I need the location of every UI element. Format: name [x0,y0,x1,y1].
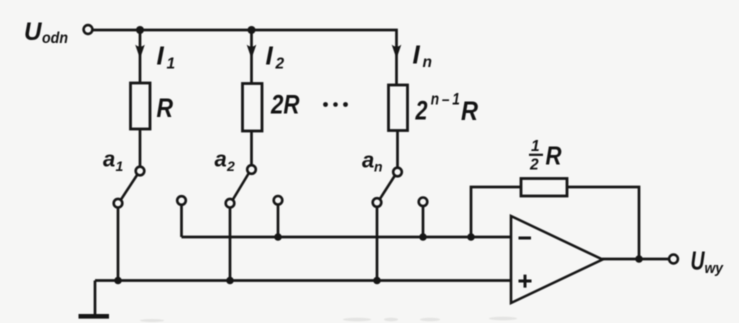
svg-text:a: a [362,148,374,173]
resistor R3 value 2^(n-1)R [389,85,408,131]
terminal U_odn (open circle) [84,25,93,34]
wire branch 3 vertical (resistor 2^(n-1)R to switch an pole) [396,131,399,168]
node: junction dot ground bus / a2 [226,277,234,285]
wire branch 2 vertical (top bus to resistor 2R) [250,30,253,84]
svg-text:R: R [461,96,478,126]
svg-text:n: n [374,159,383,175]
svg-text:1: 1 [167,56,176,73]
wire an right contact down to summing bus [422,206,425,237]
switch a2: blade [233,173,249,200]
switch a1: pole contact circle [136,167,145,176]
switch an: right (summing-side) contact circle [419,198,428,207]
switch a1: blade [121,175,137,200]
svg-text:1: 1 [531,138,540,155]
resistor R1 value R [131,83,151,129]
faint scan bleed-through smudges (decorative) [140,317,517,322]
op-amp minus sign [519,237,532,240]
node: junction dot ground bus / an [373,277,381,285]
wire a1 right contact down then right: start of summing bus [180,205,183,237]
node: junction dot top bus / branch 1 [136,26,144,34]
svg-text:2: 2 [529,157,539,174]
switch an: pole contact circle [393,168,402,177]
ground symbol [79,314,110,319]
node: junction dot summing bus / a2 right contact [274,233,282,241]
switch a2: pole contact circle [247,165,256,174]
op-amp U1 [511,216,603,303]
wire feedback resistor to output node [567,187,639,259]
wire branch 1 vertical (top bus to resistor R) [139,30,142,83]
op-amp plus sign [519,275,532,288]
current arrow I2 [247,45,257,59]
svg-text:2R: 2R [270,90,299,120]
svg-text:2: 2 [415,96,428,126]
switch a1: left (ground-side) contact circle [114,199,123,208]
svg-text:2: 2 [226,158,235,174]
svg-text:a: a [103,147,115,172]
resistor R2 value 2R [243,84,263,132]
wire branch 2 vertical (resistor 2R to switch a2 pole) [250,131,253,165]
wire feedback tap up and to 1/2R resistor [471,187,521,237]
node: junction dot ground bus / a1 [114,277,122,285]
wire a2 right contact down to summing bus [277,205,280,237]
svg-text:U: U [24,18,42,46]
wire ground bus to op-amp non-inverting input [95,279,511,282]
svg-text:n – 1: n – 1 [431,90,460,109]
wire a1 left contact down to ground bus [117,208,120,281]
svg-text:I: I [157,41,165,71]
svg-text:R: R [546,143,563,171]
svg-text:wy: wy [705,260,724,277]
wire summing bus to op-amp inverting input [182,236,512,239]
svg-text:I: I [266,41,274,71]
current arrow I1 [135,45,145,59]
current arrow In [392,45,402,59]
node: junction dot summing bus / feedback tap [467,233,475,241]
wire op-amp output to terminal [602,258,669,261]
wire an left contact down to ground bus (crosses summing bus) [376,207,379,281]
resistor Rf value 1/2 R (feedback) [521,179,567,197]
wire branch 1 vertical (resistor R to switch a1 pole) [139,129,142,167]
svg-text:a: a [215,147,227,172]
wire top bus from Uodn terminal to branch-3 corner [93,30,397,85]
svg-text:odn: odn [42,30,68,47]
node: junction dot summing bus / an right contact [419,233,427,241]
svg-text:R: R [157,93,174,123]
svg-text:U: U [691,246,706,276]
svg-text:I: I [413,40,421,70]
terminal U_wy (open circle) [669,255,678,264]
node: junction dot top bus / branch 2 [248,26,256,34]
wire a2 left contact down to ground bus (crosses summing bus) [229,208,232,281]
switch a2: right (summing-side) contact circle [274,196,283,205]
switch an: left (ground-side) contact circle [373,198,382,207]
svg-text:2: 2 [275,56,285,73]
switch a1: right (summing-side) contact circle [177,196,186,205]
switch a2: left (ground-side) contact circle [226,199,235,208]
svg-text:n: n [423,54,432,71]
node: junction dot output / feedback [635,255,643,263]
svg-text:1: 1 [116,158,124,174]
ellipsis dots [323,102,328,107]
switch an: blade [380,176,395,199]
wire ground drop [94,281,97,316]
